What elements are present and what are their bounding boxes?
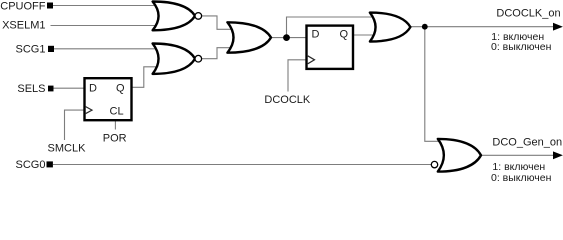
svg-text:Q: Q [340,28,349,40]
wire DFF2 Q to U4 [353,34,376,36]
NOR gate U1 [153,2,202,31]
input square SCG1 [48,46,54,52]
wire node A up and over to U4 top input [287,17,377,38]
OR gate U3 [227,22,271,52]
OR gate U5 with inverted bottom input [431,139,481,172]
svg-text:D: D [312,28,320,40]
wire SELS to DFF1 D [53,87,85,89]
wire U3 output to DFF2 D [271,37,307,39]
svg-text:SCG1: SCG1 [16,44,46,56]
input square CPUOFF [47,3,53,9]
svg-text:0: выключен: 0: выключен [491,41,552,53]
wire DCOCLK to DFF2 clock [288,60,307,92]
wire CPUOFF to U1 [53,5,162,7]
svg-text:SMCLK: SMCLK [48,143,87,155]
wire XSELM1 to U1 [51,25,163,27]
svg-text:CPUOFF: CPUOFF [0,0,46,12]
svg-text:POR: POR [103,133,127,145]
node A junction dot [283,34,290,41]
wire DFF1 Q to U2 [130,67,162,88]
wire U5 output to DCO_Gen_on arrow [481,154,556,156]
input square SCG0 [47,161,53,167]
wire U1 output to U3 [202,16,236,29]
svg-text:XSELM1: XSELM1 [2,19,45,31]
wire U2 output to U3 [202,48,236,59]
svg-text:DCO_Gen_on: DCO_Gen_on [492,137,562,149]
node B junction dot [422,24,428,30]
svg-text:CL: CL [110,106,124,118]
wire U4 output to DCOCLK_on arrow [410,26,556,28]
svg-text:DCOCLK_on: DCOCLK_on [496,8,560,20]
svg-text:0: выключен: 0: выключен [491,172,552,184]
wire SCG1 to U2 [54,48,162,50]
D flip-flop DFF1 [85,78,132,120]
svg-text:D: D [89,83,97,95]
arrowhead DCO_Gen_on [553,151,563,159]
wire SMCLK to DFF1 clock [65,110,86,140]
wire SCG0 to U5 bubble [53,164,431,166]
svg-text:Q: Q [116,83,125,95]
svg-text:SELS: SELS [17,83,45,95]
arrowhead DCOCLK_on [553,23,563,31]
OR gate U4 [370,13,411,42]
NOR gate U2 [153,44,202,74]
input square SELS [48,86,54,92]
D flip-flop DFF2 [307,26,354,69]
wire POR to DFF1 CL [114,120,116,130]
wire node B down to U5 top input [425,27,441,142]
svg-text:SCG0: SCG0 [16,159,46,171]
svg-text:DCOCLK: DCOCLK [264,94,311,106]
